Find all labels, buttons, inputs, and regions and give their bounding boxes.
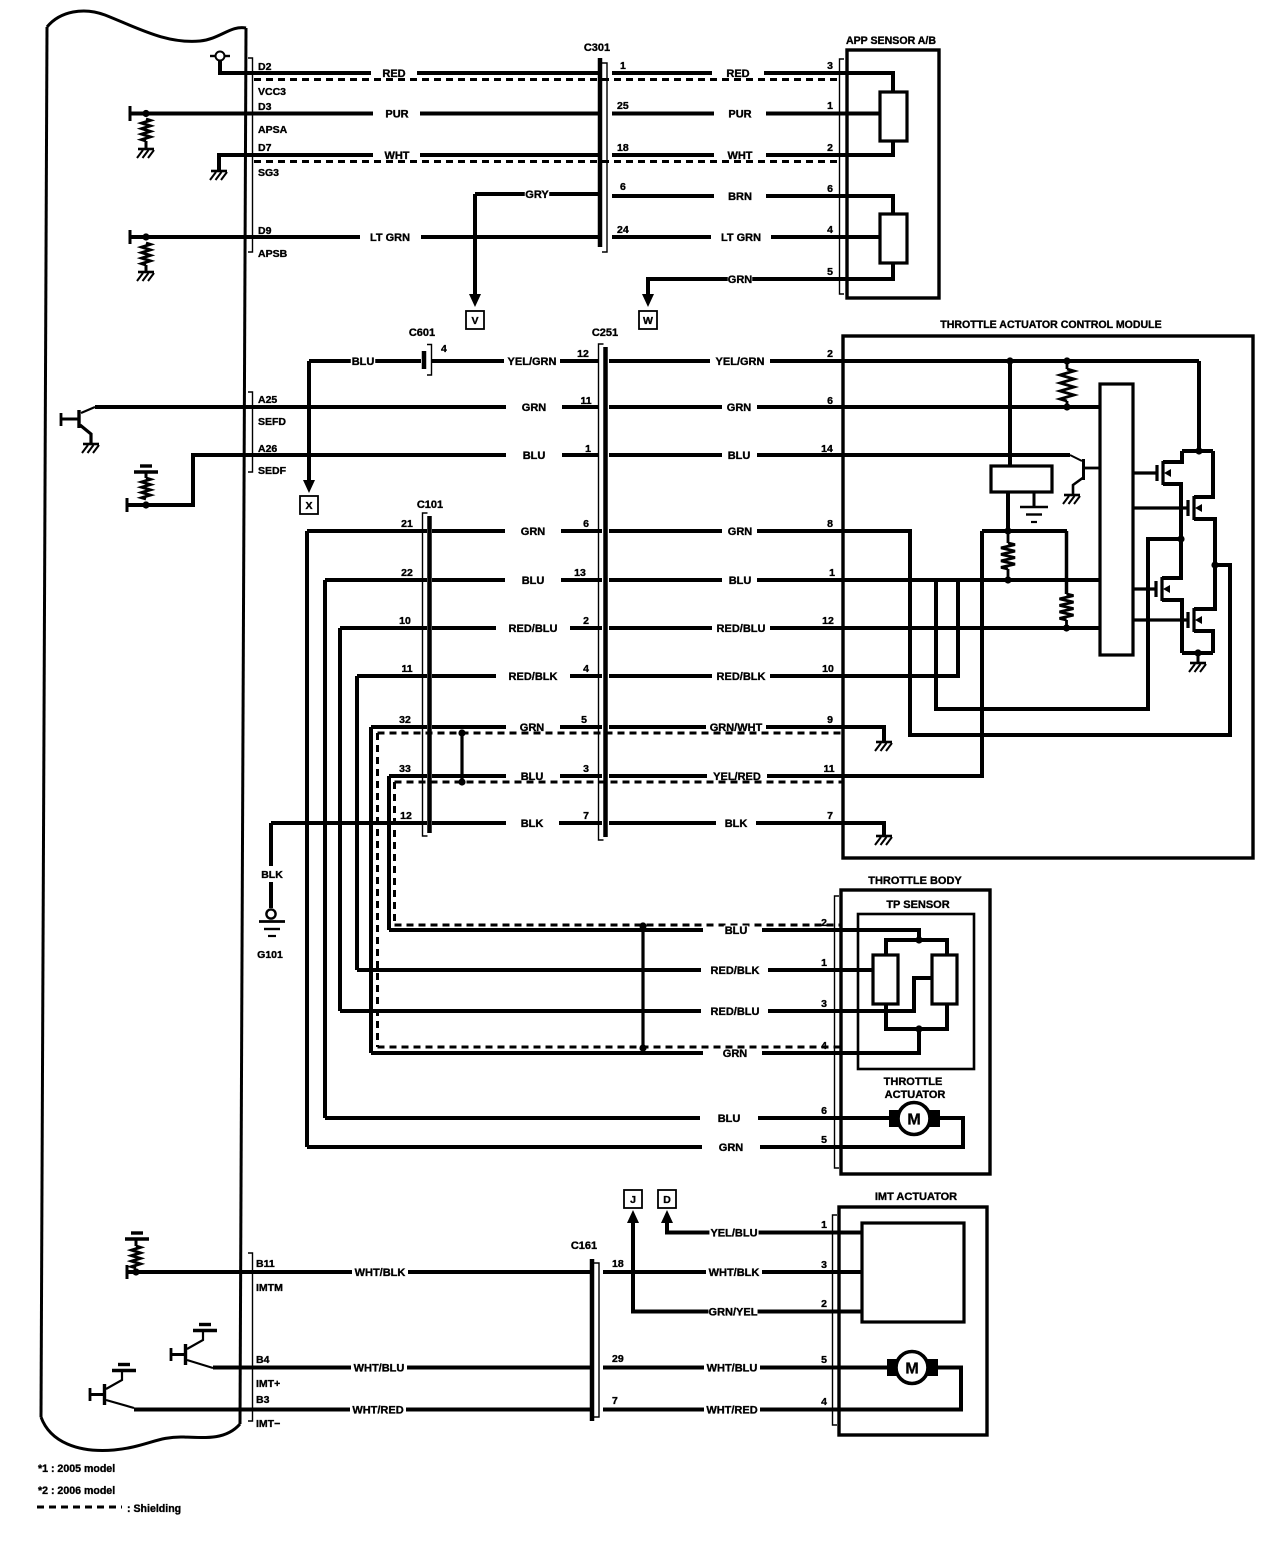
svg-text:SEDF: SEDF bbox=[258, 465, 287, 477]
wire WHT/BLK B11 to C161 bbox=[246, 1270, 352, 1274]
reference box D bbox=[658, 1190, 676, 1208]
svg-text:14: 14 bbox=[821, 443, 833, 455]
svg-text:18: 18 bbox=[612, 1258, 624, 1270]
TAC GRN/WHT pin9 stub to ground bbox=[843, 727, 884, 741]
svg-text:4: 4 bbox=[821, 1040, 827, 1052]
svg-text:IMT ACTUATOR: IMT ACTUATOR bbox=[875, 1191, 957, 1203]
svg-text:2: 2 bbox=[827, 348, 833, 360]
ground at Q5 bbox=[1064, 494, 1080, 497]
wire YEL/GRN C251 to TAC module pin 2 bbox=[609, 359, 710, 363]
svg-text:WHT/BLK: WHT/BLK bbox=[355, 1267, 406, 1279]
IMT actuator connector bracket bbox=[833, 1215, 838, 1425]
TAC RED/BLU pin12 wire to IC bbox=[843, 626, 1100, 630]
IMT actuator motor M2 bbox=[839, 1366, 887, 1370]
TAC resistor R3 bbox=[1065, 531, 1069, 594]
svg-text:1: 1 bbox=[821, 957, 827, 969]
wire label GRN (A25) bbox=[522, 403, 546, 412]
svg-text:A25: A25 bbox=[258, 394, 277, 406]
svg-text:12: 12 bbox=[822, 615, 834, 627]
svg-text:THROTTLE: THROTTLE bbox=[884, 1076, 943, 1088]
TAC BLK pin7 stub to ground bbox=[843, 823, 884, 835]
svg-text:GRY: GRY bbox=[525, 189, 549, 201]
svg-text:C251: C251 bbox=[592, 327, 618, 339]
wire WHT/RED B3 to C161 bbox=[134, 1408, 350, 1412]
wire RED/BLK C251 to TAC module pin 10 bbox=[609, 674, 712, 678]
TAC internal supply rail YEL/GRN bbox=[843, 359, 1199, 363]
wire label RED/BLK (right) bbox=[716, 672, 765, 681]
TAC BLU pin14 wire to transistor Q5 bbox=[843, 453, 1070, 457]
TP sensor element 1 bbox=[873, 955, 898, 1004]
wire GRN A25 to C251 bbox=[246, 405, 506, 409]
throttle body connector bracket bbox=[835, 896, 840, 1168]
wire WHT/RED C161 to IMT actuator pin 4 bbox=[603, 1408, 704, 1412]
wire label RED/BLK bbox=[508, 672, 557, 681]
svg-text:YEL/BLU: YEL/BLU bbox=[710, 1227, 757, 1239]
svg-text:5: 5 bbox=[821, 1354, 827, 1366]
APP sensor element B (potentiometer) bbox=[880, 214, 907, 263]
wire WHT/BLK C161 to IMT actuator pin 3 bbox=[603, 1270, 706, 1274]
wire YEL/RED C251 to TAC module pin 11 bbox=[609, 774, 707, 778]
ground G101 symbol bbox=[266, 909, 275, 918]
wire WHT C301 to APP sensor pin 2 bbox=[612, 153, 714, 157]
MOSFET Q1 bbox=[1133, 471, 1156, 474]
internal transistor at B3 (IMT-) bbox=[89, 1388, 92, 1401]
vertical wire GRN 32 to TP sensor 4 bbox=[369, 727, 373, 1053]
TP sensor internal wiring bottom bbox=[886, 1004, 947, 1029]
wire label BLU (pin1) bbox=[728, 576, 752, 585]
MOSFET Q4 bbox=[1133, 618, 1187, 621]
svg-text:2: 2 bbox=[821, 1298, 827, 1310]
wire GRN C251 to TAC module pin 8 bbox=[609, 529, 722, 533]
svg-text:D7: D7 bbox=[258, 142, 272, 154]
wire YEL/GRN C601 to C251 bbox=[432, 359, 504, 363]
svg-text:B11: B11 bbox=[256, 1258, 275, 1270]
TAC driver block bbox=[991, 466, 1052, 492]
wire label BLU (to C601) bbox=[351, 357, 375, 366]
APP sensor connector bracket bbox=[840, 59, 845, 294]
wire label YEL/GRN (right) bbox=[715, 357, 764, 366]
TAC resistor R2 bbox=[1001, 543, 1015, 569]
svg-text:4: 4 bbox=[821, 1396, 827, 1408]
svg-text:10: 10 bbox=[822, 663, 834, 675]
wire label WHT/BLU (left) bbox=[354, 1363, 403, 1372]
svg-text:X: X bbox=[305, 500, 312, 512]
ECM connector bracket D2-APSB bbox=[248, 58, 253, 252]
svg-text:WHT: WHT bbox=[727, 150, 752, 162]
MOSFET Q2 bbox=[1133, 506, 1187, 509]
svg-text:RED/BLK: RED/BLK bbox=[711, 965, 760, 977]
H-bridge top rail bbox=[1182, 449, 1213, 453]
svg-text:SG3: SG3 bbox=[258, 167, 279, 179]
wire label BLK (G101) bbox=[260, 866, 284, 882]
wire label WHT/BLK (left) bbox=[355, 1268, 404, 1277]
wire IMT pin 4 to motor bbox=[839, 1368, 961, 1410]
wire label RED (right) bbox=[726, 69, 750, 78]
wire GRN to TP sensor pin 4 bbox=[371, 1051, 703, 1055]
svg-text:RED/BLK: RED/BLK bbox=[717, 671, 766, 683]
svg-text:WHT/RED: WHT/RED bbox=[352, 1404, 403, 1416]
svg-text:3: 3 bbox=[821, 998, 827, 1010]
svg-text:22: 22 bbox=[401, 567, 413, 579]
TP sensor wiper 1 wire bbox=[841, 968, 873, 972]
svg-text:APP SENSOR A/B: APP SENSOR A/B bbox=[846, 35, 936, 47]
wire label BLU (TP2) bbox=[724, 926, 748, 935]
svg-text:V: V bbox=[471, 315, 478, 327]
svg-text:3: 3 bbox=[827, 60, 833, 72]
svg-text:YEL/GRN: YEL/GRN bbox=[716, 356, 765, 368]
wire label GRY bbox=[525, 190, 549, 199]
svg-text:4: 4 bbox=[583, 663, 589, 675]
svg-text:WHT: WHT bbox=[384, 150, 409, 162]
TAC RED/BLK pin10 wire bbox=[843, 580, 958, 676]
internal resistor to ground at D3 (APSA) bbox=[129, 106, 132, 121]
svg-text:B4: B4 bbox=[256, 1354, 270, 1366]
svg-text:5: 5 bbox=[581, 714, 587, 726]
svg-text:5: 5 bbox=[827, 266, 833, 278]
svg-text:M: M bbox=[907, 1112, 920, 1129]
wire from reference D to YEL/BLU bbox=[661, 1210, 673, 1223]
svg-text:1: 1 bbox=[585, 443, 591, 455]
wire BLK to ground G101 bbox=[269, 823, 273, 866]
TAC GRN pin6 wire to IC bbox=[843, 405, 1100, 409]
svg-text:THROTTLE BODY: THROTTLE BODY bbox=[868, 875, 962, 887]
ground at D9 bbox=[138, 271, 154, 274]
svg-text:WHT/RED: WHT/RED bbox=[706, 1404, 757, 1416]
shield interconnect lower bbox=[641, 926, 644, 1048]
wire label RED/BLK (TP1) bbox=[710, 966, 759, 975]
svg-text:1: 1 bbox=[829, 567, 835, 579]
wire BLU C101-33 to C251-3 (shielded) bbox=[389, 774, 427, 778]
wire label PUR (right) bbox=[728, 109, 752, 118]
wire BLU to C601 bbox=[309, 359, 421, 363]
svg-text:2: 2 bbox=[821, 917, 827, 929]
svg-text:ACTUATOR: ACTUATOR bbox=[885, 1089, 946, 1101]
wire PUR C301 to APP sensor pin 1 bbox=[612, 112, 714, 116]
svg-text:IMTM: IMTM bbox=[256, 1282, 283, 1294]
wire RED/BLK to TP sensor pin 1 bbox=[357, 968, 701, 972]
TP sensor internal wiring top bbox=[841, 930, 919, 940]
svg-text:32: 32 bbox=[399, 714, 411, 726]
svg-text:GRN: GRN bbox=[728, 526, 753, 538]
IMT actuator solenoid block bbox=[862, 1223, 964, 1322]
wire GRN/WHT C251 to TAC module pin 9 bbox=[609, 725, 706, 729]
IMT actuator box bbox=[839, 1207, 987, 1435]
connector C301 bbox=[598, 58, 603, 247]
wire label WHT/BLU (right) bbox=[707, 1363, 756, 1372]
svg-text:1: 1 bbox=[620, 60, 626, 72]
throttle body box bbox=[841, 890, 990, 1174]
wire label WHT (right) bbox=[728, 151, 752, 160]
shield dashed run above TP GRN wire bbox=[378, 1046, 842, 1049]
wire RED/BLU C251 to TAC module pin 12 bbox=[609, 626, 712, 630]
svg-text:18: 18 bbox=[617, 142, 629, 154]
vertical wire BLU 22 to throttle actuator 6 bbox=[323, 580, 327, 1118]
shield dashed line VCC3/RED bbox=[254, 78, 841, 81]
svg-text:APSA: APSA bbox=[258, 124, 288, 136]
svg-text:*2 : 2006 model: *2 : 2006 model bbox=[38, 1485, 115, 1497]
svg-text:4: 4 bbox=[827, 224, 833, 236]
svg-text:: Shielding: : Shielding bbox=[127, 1503, 181, 1515]
svg-text:APSB: APSB bbox=[258, 248, 288, 260]
svg-text:21: 21 bbox=[401, 518, 413, 530]
wire label BLK (12) bbox=[520, 819, 544, 828]
svg-text:IMT+: IMT+ bbox=[256, 1378, 280, 1390]
ground at A25 transistor bbox=[83, 443, 99, 446]
ECM/PCM torn-edge boundary (left) bbox=[47, 11, 246, 41]
ECM connector bracket B11-B3 bbox=[248, 1253, 253, 1421]
svg-text:GRN: GRN bbox=[522, 402, 547, 414]
ground at pin 7 bbox=[876, 835, 892, 838]
wire label BLU (33) bbox=[520, 772, 544, 781]
svg-text:BLU: BLU bbox=[728, 450, 751, 462]
wire label GRN (21) bbox=[521, 527, 545, 536]
vertical wire RED/BLU 10 to TP sensor 3 bbox=[338, 628, 342, 1011]
wire BLK C251 to TAC module pin 7 bbox=[609, 821, 716, 825]
wire GRN APP sensor pin 5 to reference W bbox=[648, 279, 847, 296]
wire GRN C101-21 to C251-6 bbox=[307, 529, 427, 533]
svg-text:YEL/GRN: YEL/GRN bbox=[508, 356, 557, 368]
TAC BLU pin1 branch to H-bridge left output bbox=[936, 539, 1179, 709]
wire label WHT/BLK (right) bbox=[709, 1268, 758, 1277]
svg-text:WHT/BLK: WHT/BLK bbox=[709, 1267, 760, 1279]
svg-text:6: 6 bbox=[821, 1105, 827, 1117]
svg-text:3: 3 bbox=[583, 763, 589, 775]
svg-text:C601: C601 bbox=[409, 327, 435, 339]
svg-text:7: 7 bbox=[612, 1395, 618, 1407]
ground at pin 9 bbox=[876, 741, 892, 744]
wire label GRN/YEL bbox=[708, 1307, 757, 1316]
wire BLU to TP sensor pin 2 bbox=[389, 928, 703, 932]
svg-text:GRN/WHT: GRN/WHT bbox=[710, 722, 763, 734]
wire BLU A26 to C251 bbox=[246, 453, 506, 457]
wire GRN to throttle actuator pin 5 bbox=[307, 1145, 702, 1149]
wire LT GRN D9 to C301 bbox=[246, 235, 360, 239]
shield dashed vertical (GRN pair) bbox=[376, 733, 379, 1047]
svg-text:BLK: BLK bbox=[521, 818, 544, 830]
TAC module box bbox=[843, 336, 1253, 858]
svg-text:GRN: GRN bbox=[727, 402, 752, 414]
connector C161 bbox=[590, 1259, 595, 1421]
svg-text:THROTTLE ACTUATOR CONTROL MODU: THROTTLE ACTUATOR CONTROL MODULE bbox=[940, 319, 1161, 331]
svg-text:SEFD: SEFD bbox=[258, 416, 286, 428]
wire label BLU (A26) bbox=[522, 451, 546, 460]
svg-text:8: 8 bbox=[827, 518, 833, 530]
H-bridge bottom rail bbox=[1182, 651, 1213, 655]
svg-text:GRN/YEL: GRN/YEL bbox=[709, 1306, 758, 1318]
svg-text:RED: RED bbox=[726, 68, 749, 80]
wire RED D2 to C301 bbox=[246, 71, 371, 75]
wire label YEL/RED bbox=[712, 772, 761, 781]
svg-text:C301: C301 bbox=[584, 42, 610, 54]
wire BRN C301 to APP sensor pin 6 bbox=[612, 194, 714, 198]
wire GRN C101-32 to C251-5 (shielded) bbox=[371, 725, 427, 729]
svg-text:6: 6 bbox=[583, 518, 589, 530]
wire BLU C101-22 to C251-13 bbox=[325, 578, 427, 582]
wire label GRN (sensor 5) bbox=[728, 275, 752, 284]
wire throttle actuator pin 5 to motor bbox=[841, 1118, 963, 1147]
wire label YEL/BLU bbox=[709, 1228, 758, 1237]
svg-text:11: 11 bbox=[580, 395, 591, 407]
connector C601 (one-pin) bbox=[422, 351, 427, 369]
legend shielding dashed sample bbox=[37, 1506, 122, 1509]
shield dashed YEL/RED run bbox=[395, 781, 844, 784]
wire label PUR bbox=[385, 109, 409, 118]
svg-text:PUR: PUR bbox=[385, 108, 408, 120]
svg-text:TP SENSOR: TP SENSOR bbox=[886, 899, 949, 911]
svg-text:6: 6 bbox=[827, 395, 833, 407]
MOSFET Q3 bbox=[1133, 587, 1155, 590]
TAC YEL/RED pin11 path bbox=[843, 531, 982, 776]
IMT stub pin 3 bbox=[839, 1270, 862, 1274]
wire label GRN (TP4) bbox=[723, 1049, 747, 1058]
svg-text:3: 3 bbox=[821, 1259, 827, 1271]
wire GRY to C301 pin 6 bbox=[475, 192, 598, 196]
svg-text:C101: C101 bbox=[417, 499, 443, 511]
svg-text:BRN: BRN bbox=[728, 191, 752, 203]
svg-text:BLU: BLU bbox=[352, 356, 375, 368]
TP sensor box bbox=[858, 914, 974, 1069]
svg-text:PUR: PUR bbox=[728, 108, 751, 120]
vertical wire RED/BLK 11 to TP sensor 1 bbox=[355, 676, 359, 970]
internal resistor to ground at D9 (APSB) bbox=[129, 230, 132, 244]
svg-text:5: 5 bbox=[821, 1134, 827, 1146]
svg-text:M: M bbox=[905, 1361, 918, 1378]
IMT stub pin 2 bbox=[839, 1310, 862, 1314]
svg-text:1: 1 bbox=[827, 100, 833, 112]
svg-text:RED/BLU: RED/BLU bbox=[717, 623, 766, 635]
wire RED/BLU to TP sensor pin 3 bbox=[340, 1009, 701, 1013]
ECM connector bracket A25-A26 bbox=[248, 392, 253, 472]
svg-text:YEL/RED: YEL/RED bbox=[713, 771, 761, 783]
wire label BLU (right) bbox=[727, 451, 751, 460]
internal transistor at A25 (SEFD) bbox=[81, 407, 95, 413]
svg-text:1: 1 bbox=[821, 1219, 827, 1231]
vertical wire BLU 33 to TP sensor 2 bbox=[387, 776, 391, 930]
svg-text:BLU: BLU bbox=[522, 575, 545, 587]
wire label RED bbox=[382, 69, 406, 78]
svg-text:WHT/BLU: WHT/BLU bbox=[354, 1362, 405, 1374]
IMT stub pin 1 bbox=[839, 1231, 862, 1235]
shield interconnect upper bbox=[460, 733, 463, 782]
svg-text:GRN: GRN bbox=[728, 274, 753, 286]
wire label RED/BLU bbox=[508, 624, 557, 633]
wire PUR D3 to C301 bbox=[246, 112, 373, 116]
svg-text:11: 11 bbox=[823, 763, 834, 775]
H-bridge left output node bbox=[1177, 535, 1184, 542]
connector C251 bbox=[603, 347, 608, 837]
svg-text:LT GRN: LT GRN bbox=[721, 232, 761, 244]
svg-text:13: 13 bbox=[574, 567, 586, 579]
svg-text:10: 10 bbox=[399, 615, 411, 627]
TAC control IC block bbox=[1100, 384, 1133, 655]
APP sensor element A (potentiometer) bbox=[880, 92, 907, 141]
wire RED/BLU C101-10 to C251-2 bbox=[340, 626, 427, 630]
wire label WHT/RED (right) bbox=[707, 1405, 756, 1414]
wire WHT/BLU B4 to C161 bbox=[213, 1366, 351, 1370]
wire to reference V bbox=[473, 194, 477, 296]
svg-text:12: 12 bbox=[577, 348, 589, 360]
svg-text:BLK: BLK bbox=[261, 869, 283, 881]
H-bridge right output node bbox=[1211, 561, 1218, 568]
svg-text:BLU: BLU bbox=[725, 925, 748, 937]
TP sensor element 2 bbox=[932, 955, 957, 1004]
shield dashed GRN/WHT run bbox=[378, 732, 844, 735]
wire label WHT/RED (left) bbox=[353, 1405, 402, 1414]
wire label RED/BLU (right) bbox=[716, 624, 765, 633]
wire label GRN (32) bbox=[520, 723, 544, 732]
svg-text:7: 7 bbox=[583, 810, 589, 822]
TAC GRN pin8 path to H-bridge right output bbox=[843, 531, 1230, 735]
svg-text:BLK: BLK bbox=[725, 818, 748, 830]
shield dashed vertical (BLU pair) bbox=[393, 782, 396, 925]
svg-text:GRN: GRN bbox=[723, 1048, 748, 1060]
wire label GRN (pin8) bbox=[728, 527, 752, 536]
TAC vertical supply to driver block bbox=[1008, 361, 1012, 466]
throttle actuator motor M1 bbox=[841, 1116, 889, 1120]
TP sensor wiper 2 wire bbox=[841, 978, 932, 1011]
driver block signal ground bbox=[1033, 492, 1036, 506]
svg-text:6: 6 bbox=[827, 183, 833, 195]
wire label BLU (22) bbox=[521, 576, 545, 585]
TAC pull-up resistor R1 bbox=[1066, 361, 1069, 369]
wire BLU to throttle actuator pin 6 bbox=[325, 1116, 700, 1120]
wire label BLK (right) bbox=[724, 819, 748, 828]
vertical wire GRN 21 to throttle actuator 5 bbox=[305, 531, 309, 1147]
svg-text:RED/BLU: RED/BLU bbox=[509, 623, 558, 635]
svg-text:RED/BLK: RED/BLK bbox=[509, 671, 558, 683]
svg-text:2: 2 bbox=[827, 142, 833, 154]
TAC divider rail bbox=[982, 529, 1067, 533]
APP sensor A/B box bbox=[847, 50, 939, 298]
svg-text:BLU: BLU bbox=[523, 450, 546, 462]
svg-text:B3: B3 bbox=[256, 1394, 270, 1406]
svg-text:4: 4 bbox=[441, 343, 447, 355]
svg-text:BLU: BLU bbox=[729, 575, 752, 587]
svg-text:29: 29 bbox=[612, 1353, 624, 1365]
svg-text:RED: RED bbox=[382, 68, 405, 80]
reference box W bbox=[639, 311, 657, 329]
svg-text:7: 7 bbox=[827, 810, 833, 822]
wire WHT/BLU C161 to IMT actuator pin 5 bbox=[603, 1366, 704, 1370]
svg-text:RED/BLU: RED/BLU bbox=[711, 1006, 760, 1018]
svg-text:D: D bbox=[663, 1194, 671, 1206]
wire GRN C251 to TAC module pin 6 bbox=[609, 405, 722, 409]
svg-text:LT GRN: LT GRN bbox=[370, 232, 410, 244]
svg-text:11: 11 bbox=[401, 663, 412, 675]
svg-text:D3: D3 bbox=[258, 101, 272, 113]
svg-text:12: 12 bbox=[400, 810, 412, 822]
wire RED C301 to APP sensor pin 3 bbox=[612, 71, 712, 75]
wire LT GRN C301 to APP sensor pin 4 bbox=[612, 235, 711, 239]
svg-text:C161: C161 bbox=[571, 1240, 597, 1252]
reference box J bbox=[624, 1190, 642, 1208]
shield dashed line SG3/WHT bbox=[254, 160, 841, 163]
svg-text:G101: G101 bbox=[257, 949, 283, 961]
svg-text:9: 9 bbox=[827, 714, 833, 726]
svg-text:IMT−: IMT− bbox=[256, 1418, 280, 1430]
wire label LT GRN (right) bbox=[720, 233, 763, 242]
wire label GRN (right) bbox=[727, 403, 751, 412]
wire RED/BLK C101-11 to C251-4 bbox=[357, 674, 427, 678]
internal ground at D7 (SG3) bbox=[219, 155, 246, 170]
svg-text:W: W bbox=[643, 315, 653, 327]
internal transistor at B4 (IMT+) bbox=[170, 1348, 173, 1361]
wire label GRN (actuator) bbox=[719, 1143, 743, 1152]
wire to reference X bbox=[307, 361, 311, 482]
internal resistor at B11 (IMTM) bbox=[126, 1265, 129, 1279]
wire label GRN/WHT bbox=[711, 723, 760, 732]
reference box V bbox=[466, 311, 484, 329]
